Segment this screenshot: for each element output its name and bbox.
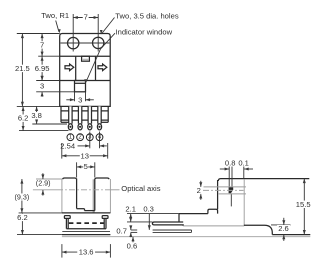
front view right arm outer edge <box>109 179 111 213</box>
svg-text:(9.3): (9.3) <box>15 193 30 202</box>
front view pin right (T shape) <box>102 216 108 219</box>
svg-text:3: 3 <box>78 96 82 105</box>
side view block top <box>179 213 208 215</box>
svg-text:6.2: 6.2 <box>17 213 28 222</box>
ext line divider1 left <box>38 55 60 57</box>
rail lines for dim 0.7 <box>131 229 137 231</box>
mounting hole circle left (3.5 dia) <box>68 37 79 48</box>
center column dividers <box>75 56 77 80</box>
hole centerlines <box>72 14 74 52</box>
svg-text:7: 7 <box>84 13 88 22</box>
ext line window bottom <box>36 91 74 93</box>
pin base horizontal bands <box>61 110 108 112</box>
svg-text:3.8: 3.8 <box>31 111 42 120</box>
bottom gray shadow line <box>62 236 310 238</box>
leader holes to circle <box>102 18 114 34</box>
front view body bottom <box>62 234 111 236</box>
front view base line1 <box>62 231 110 233</box>
dim 3.8 <box>36 106 38 124</box>
ext line front bottom left <box>17 234 62 236</box>
svg-text:0.8: 0.8 <box>225 158 236 167</box>
svg-text:0.7: 0.7 <box>116 227 127 236</box>
front lower section top <box>62 212 111 214</box>
side view block left edge <box>178 214 180 222</box>
dim 7 top (hole pitch) <box>73 17 98 19</box>
slot left wall <box>76 179 78 209</box>
svg-text:2.1: 2.1 <box>125 204 136 213</box>
svg-text:0.1: 0.1 <box>238 158 249 167</box>
front view pin bottom line <box>66 228 106 230</box>
svg-text:Two, 3.5 dia. holes: Two, 3.5 dia. holes <box>115 12 179 21</box>
pin base bottom edges <box>61 121 69 123</box>
panel edge gray vertical <box>243 179 245 226</box>
side view bottom edge right <box>272 234 310 236</box>
leader R1 to corner <box>56 21 59 32</box>
pin numbers 1-4 (circled) <box>67 134 74 141</box>
ext line body bottom-left <box>17 105 60 107</box>
dim 0.6 <box>132 237 134 243</box>
dim 15.5 <box>303 179 305 235</box>
ext lines 2.1 and 0.3 <box>127 213 179 215</box>
svg-text:21.5: 21.5 <box>15 64 30 73</box>
ext line lower section top left <box>19 212 62 214</box>
svg-text:7: 7 <box>40 40 44 49</box>
ext line arm top left <box>36 178 62 180</box>
hook inner line <box>230 193 232 206</box>
indicator window rectangle <box>75 81 86 92</box>
svg-text:13.6: 13.6 <box>79 248 94 257</box>
dim (9.3) <box>21 179 23 213</box>
front view left arm outer edge <box>61 179 63 213</box>
svg-text:0.6: 0.6 <box>127 242 138 251</box>
side view bump on block <box>208 209 218 213</box>
optical axis line <box>33 189 57 191</box>
ext line body top-left <box>17 33 60 35</box>
dim 6.2 top view <box>22 106 24 130</box>
ledge ext line for 2.6 <box>271 224 291 226</box>
svg-text:(2.9): (2.9) <box>36 178 51 187</box>
front view pin left (T shape) <box>64 216 70 219</box>
dim 3 (window width) <box>74 92 76 102</box>
side view pin strip <box>152 222 183 226</box>
front view dashed seating line <box>69 222 104 224</box>
dim 13.6 <box>61 244 63 258</box>
terminal pins 1-4 <box>69 106 72 123</box>
center notch with gray fill <box>82 56 90 61</box>
dim 6.2 front view <box>21 213 23 235</box>
panel seat gray horizontal <box>183 225 244 227</box>
svg-text:5: 5 <box>84 162 88 171</box>
hook blade <box>228 167 230 187</box>
svg-text:2: 2 <box>197 186 201 195</box>
ext line divider2 left <box>36 80 60 82</box>
dim 0.3 <box>148 214 150 230</box>
ext line pin shoulder (3.8) <box>32 123 67 125</box>
dim 21.5 <box>21 34 23 107</box>
divider above window <box>60 80 110 82</box>
front view left arm top band <box>63 178 77 179</box>
svg-text:3: 3 <box>40 81 44 90</box>
dim 2.1 <box>130 214 132 222</box>
hook barb <box>229 187 234 194</box>
svg-text:Two, R1: Two, R1 <box>41 11 69 20</box>
side view left edge upper <box>217 180 219 209</box>
dim 2.54 pin pitch <box>89 132 91 149</box>
side view top edge <box>218 179 309 181</box>
dim 5 slot width <box>76 162 78 177</box>
svg-text:Indicator window: Indicator window <box>116 27 173 36</box>
top view body outline <box>60 34 110 107</box>
svg-text:0.3: 0.3 <box>143 204 154 213</box>
svg-text:13: 13 <box>81 151 89 160</box>
front view right arm top band <box>95 178 109 179</box>
svg-text:6.2: 6.2 <box>18 114 29 123</box>
optical axis mark left (block arrow) <box>65 64 74 71</box>
dim 13 <box>61 143 63 159</box>
optical axis mark right (block arrow) <box>98 64 107 71</box>
ext line pin tip (6.2) <box>19 130 69 132</box>
divider below holes <box>60 55 110 57</box>
optical axis in side view <box>203 189 244 191</box>
svg-text:15.5: 15.5 <box>296 200 311 209</box>
dim 3 (window height) <box>41 76 43 81</box>
dim 7 left <box>41 34 43 57</box>
svg-text:6.95: 6.95 <box>35 64 50 73</box>
slot right wall <box>94 179 96 211</box>
pin tips <box>68 124 72 130</box>
slot right wall shading <box>93 179 95 213</box>
dim 2 <box>200 181 202 187</box>
slot bottom step <box>77 208 85 210</box>
dim 6.95 <box>41 56 43 80</box>
svg-text:2.54: 2.54 <box>60 141 75 150</box>
gray lines pair for dim 2 <box>204 186 247 188</box>
leader indicator window <box>86 33 115 82</box>
mounting hole circle right (3.5 dia) <box>93 37 104 48</box>
side view foot <box>244 225 272 234</box>
dim (2.9) <box>42 173 44 179</box>
dim 2.6 <box>283 218 285 225</box>
svg-text:2.6: 2.6 <box>278 224 289 233</box>
svg-text:Optical axis: Optical axis <box>121 184 160 193</box>
pin base side walls <box>60 106 62 122</box>
